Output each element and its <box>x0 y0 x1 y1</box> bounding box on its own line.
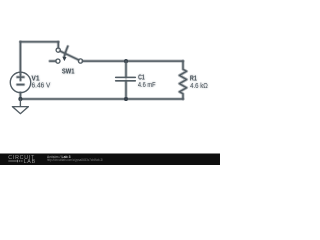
watermark bar <box>0 154 220 166</box>
svg-text:LAB: LAB <box>24 159 36 165</box>
CircuitLab logo <box>8 155 36 165</box>
svg-text:http://circuitlab.com/c/ypsa84: http://circuitlab.com/c/ypsa8453v7cbf/la… <box>47 158 103 162</box>
watermark caption <box>47 155 103 162</box>
